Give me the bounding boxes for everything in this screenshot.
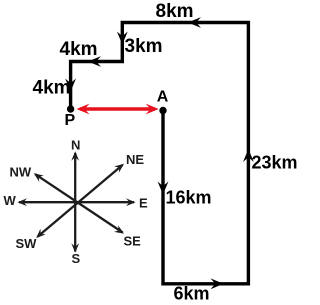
compass arrow S: [71, 243, 79, 253]
compass arrow SE: [114, 225, 126, 237]
svg-text:3km: 3km: [125, 36, 163, 57]
compass arrow N: [71, 151, 79, 161]
svg-text:NE: NE: [126, 152, 144, 167]
svg-text:S: S: [72, 251, 81, 266]
svg-text:NW: NW: [10, 165, 32, 180]
svg-text:8km: 8km: [156, 1, 194, 22]
svg-text:W: W: [4, 193, 17, 208]
arrowhead on 3km segment (points south): [117, 32, 128, 45]
svg-text:16km: 16km: [166, 188, 212, 208]
svg-text:4km: 4km: [60, 39, 98, 60]
arrowhead on 6km segment (points east): [211, 278, 224, 289]
compass arrow NE: [114, 161, 126, 173]
svg-text:SW: SW: [16, 236, 38, 251]
compass arrow SW: [34, 229, 46, 241]
arrowhead on 23km segment (points north): [243, 149, 254, 162]
compass N-S line: [74, 153, 76, 252]
svg-text:23km: 23km: [252, 152, 298, 172]
arrowhead on 4km vertical segment (points south): [65, 79, 76, 92]
svg-text:6km: 6km: [174, 284, 210, 304]
compass NE-SW line: [38, 165, 123, 237]
wire: main route polyline A->16km->6km->23km->8km->3km->4km->4km->P: [71, 23, 249, 284]
arrowhead on 8km segment (points west): [188, 17, 201, 28]
arrowhead on 16km segment (points south): [158, 182, 169, 195]
svg-text:A: A: [157, 89, 169, 106]
svg-text:E: E: [139, 196, 148, 211]
compass NW-SE line: [35, 174, 123, 232]
node A dot: [159, 107, 166, 114]
red double arrow between P and A: [77, 104, 159, 115]
svg-text:P: P: [65, 112, 76, 129]
compass arrow W: [18, 198, 28, 206]
svg-text:N: N: [71, 138, 80, 153]
compass arrow E: [126, 198, 136, 206]
compass arrow NW: [32, 170, 44, 182]
compass rose: [19, 153, 134, 252]
node P dot: [67, 105, 74, 112]
compass W-E line: [19, 201, 134, 203]
arrowhead on 4km horizontal segment (points west): [88, 56, 101, 67]
svg-text:4km: 4km: [33, 78, 71, 99]
svg-text:SE: SE: [124, 234, 142, 249]
